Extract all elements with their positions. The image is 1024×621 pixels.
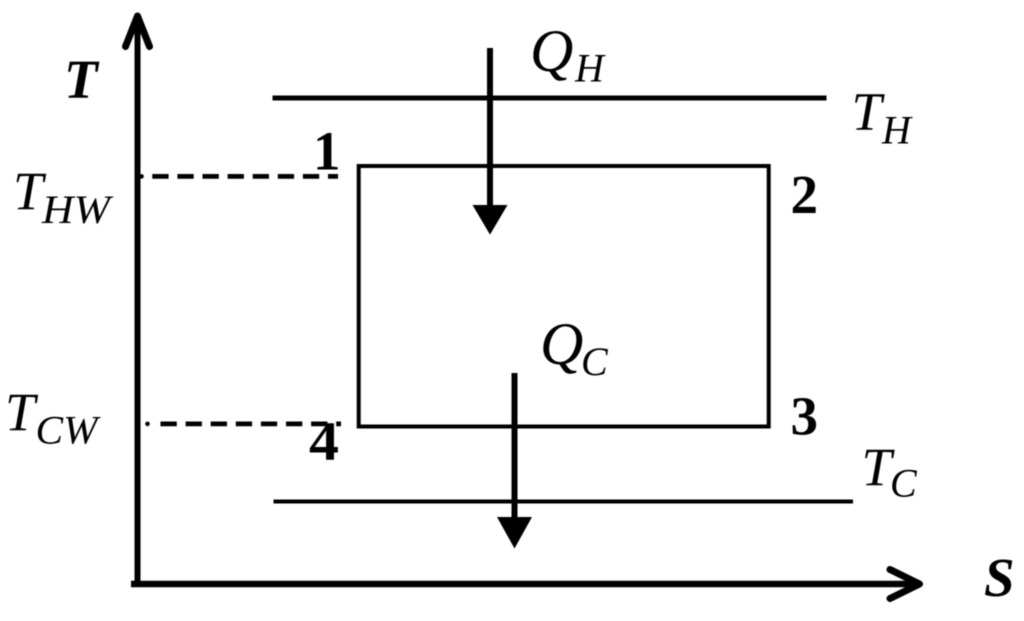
svg-text:H: H (881, 108, 913, 153)
cycle rectangle 1-2-3-4 (359, 166, 769, 427)
svg-text:Q: Q (540, 311, 583, 377)
svg-text:T: T (852, 81, 886, 141)
svg-text:2: 2 (791, 164, 819, 225)
heat rejection arrow Q_C (512, 373, 518, 522)
svg-text:1: 1 (313, 121, 341, 182)
svg-text:HW: HW (41, 187, 114, 232)
S axis (horizontal) (131, 581, 916, 588)
svg-text:T: T (5, 382, 39, 442)
svg-text:T: T (64, 49, 100, 110)
T axis arrowhead (126, 16, 150, 47)
dashed line T_HW (139, 174, 144, 179)
svg-text:C: C (581, 339, 609, 384)
hot reservoir line T_H (273, 96, 827, 101)
svg-text:H: H (574, 45, 606, 90)
cold reservoir line T_C (274, 500, 854, 504)
svg-text:CW: CW (36, 408, 102, 453)
dashed line T_CW (145, 422, 150, 427)
heat input arrow Q_H (487, 48, 493, 210)
svg-text:Q: Q (530, 18, 573, 84)
svg-text:C: C (890, 461, 918, 506)
svg-text:S: S (984, 547, 1015, 608)
svg-text:3: 3 (791, 386, 819, 447)
svg-text:4: 4 (309, 411, 339, 472)
T axis (vertical) (135, 18, 141, 584)
S axis arrowhead (890, 570, 920, 599)
